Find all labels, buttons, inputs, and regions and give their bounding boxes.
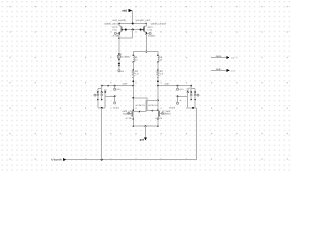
svg-text:w=10u: w=10u bbox=[155, 117, 163, 120]
svg-text:out+: out+ bbox=[216, 55, 222, 58]
inductor L1 bbox=[133, 55, 139, 63]
resistor R1 bbox=[132, 69, 139, 78]
svg-text:"pdk05_ultra18": "pdk05_ultra18" bbox=[150, 22, 166, 25]
wire left varactor to rail bbox=[101, 108, 103, 160]
wire vdd to rail bbox=[132, 11, 134, 24]
node vdd rail bbox=[119, 23, 146, 25]
wire out+ down to M3 drain bbox=[132, 86, 134, 110]
power symbol vdd bbox=[122, 9, 132, 13]
svg-text:Vtune: Vtune bbox=[51, 158, 62, 162]
wire L1-R1 bbox=[132, 62, 134, 70]
label I0 bbox=[120, 53, 131, 58]
wire tank top bbox=[133, 52, 158, 56]
node out+ wire bbox=[102, 85, 134, 87]
transistor M2 (PMOS right) bbox=[141, 24, 152, 36]
svg-text:gnd: gnd bbox=[140, 138, 145, 141]
label M2 params bbox=[135, 19, 166, 37]
wire varactor C2 bulk stub bbox=[178, 95, 188, 97]
net label vctrl right bbox=[177, 86, 184, 92]
net label vss bbox=[118, 70, 125, 73]
svg-text:out-: out- bbox=[231, 69, 236, 72]
svg-text:vcm: vcm bbox=[179, 88, 183, 91]
svg-text:w=4u l=u: w=4u l=u bbox=[148, 104, 158, 107]
svg-text:vsub1: vsub1 bbox=[113, 107, 120, 110]
net label vsub right bbox=[169, 96, 182, 109]
transistor M4 (NMOS right) bbox=[152, 110, 163, 120]
svg-text:"pdk05u": "pdk05u" bbox=[123, 113, 132, 116]
svg-text:out-: out- bbox=[216, 68, 222, 71]
current source I0 bbox=[117, 53, 120, 70]
svg-text:out+: out+ bbox=[123, 83, 128, 86]
ground label gnd bbox=[140, 138, 147, 142]
port out+ bbox=[211, 55, 236, 60]
svg-text:net1_pmosfb: net1_pmosfb bbox=[112, 19, 126, 22]
resistor R2 bbox=[157, 69, 164, 78]
wire right drain down bbox=[145, 34, 147, 51]
svg-text:w=10u: w=10u bbox=[126, 117, 134, 120]
wire common source bbox=[133, 125, 158, 127]
svg-text:w=48u: w=48u bbox=[148, 35, 156, 38]
svg-text:w=4u l=u: w=4u l=u bbox=[136, 104, 146, 107]
wire left drain down bbox=[118, 34, 120, 55]
wire M4 source down bbox=[157, 119, 159, 126]
net label vsub left bbox=[113, 96, 120, 109]
label M1 params bbox=[104, 19, 127, 37]
svg-text:"pdk05_ultra18": "pdk05_ultra18" bbox=[104, 22, 120, 25]
svg-text:dc=800u: dc=800u bbox=[121, 55, 131, 58]
wire M3 source down bbox=[132, 119, 134, 126]
transistor M1 (PMOS left) bbox=[114, 24, 125, 36]
wire vtune rail bbox=[66, 108, 196, 160]
wire mirror feedback bbox=[132, 30, 134, 39]
node out- wire bbox=[158, 85, 191, 87]
wire varactor C1 bulk stub bbox=[105, 95, 114, 97]
varactor C2 (right) bbox=[187, 86, 199, 109]
svg-text:vsub2: vsub2 bbox=[169, 107, 176, 110]
svg-text:l=2u: l=2u bbox=[112, 29, 117, 32]
wire R1 to out+ bbox=[132, 76, 134, 85]
svg-text:l=2u: l=2u bbox=[148, 29, 153, 32]
wire tail to gnd bbox=[145, 126, 147, 138]
label M3 params bbox=[123, 104, 146, 120]
port out- bbox=[211, 68, 236, 73]
wire cross couple B (M4 drain to M3 gate) bbox=[139, 100, 158, 111]
inductor L2 bbox=[157, 55, 163, 63]
wire cross couple A (M3 drain to M4 gate) bbox=[133, 98, 152, 111]
port Vtune bbox=[51, 158, 66, 162]
wire gate rail bbox=[122, 29, 143, 31]
transistor M3 (NMOS left) bbox=[128, 110, 139, 120]
wire L2-R2 bbox=[157, 62, 159, 70]
svg-text:vcm: vcm bbox=[116, 88, 120, 91]
label M4 params bbox=[148, 104, 171, 120]
svg-text:"pmosfb"_net2: "pmosfb"_net2 bbox=[135, 19, 151, 22]
varactor C1 (left) bbox=[94, 86, 106, 109]
svg-text:out+: out+ bbox=[231, 57, 237, 60]
junction vdd rail bbox=[132, 23, 134, 25]
wire R2 to out- bbox=[157, 76, 159, 85]
svg-text:out-: out- bbox=[165, 83, 170, 86]
wire out- down to M4 drain bbox=[157, 86, 159, 110]
net label vctrl left bbox=[114, 86, 121, 92]
svg-text:"pdk05u": "pdk05u" bbox=[162, 113, 171, 116]
svg-text:vdd: vdd bbox=[122, 10, 127, 13]
